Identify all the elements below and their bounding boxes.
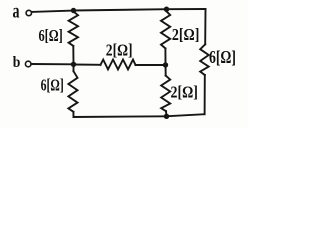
wire right side top segment: [204, 9, 206, 44]
wire bottom-left resistor to bottom wire: [72, 112, 74, 117]
wire a to node D1: [32, 11, 72, 12]
node D3 junction dot: [71, 62, 76, 67]
resistor 2 ohm middle horizontal zigzag: [101, 60, 136, 70]
svg-text:6[Ω]: 6[Ω]: [39, 26, 63, 45]
resistor 6 ohm bottom-left zigzag: [68, 71, 77, 112]
node D1 junction dot: [71, 8, 76, 13]
resistor 2 ohm bottom-right zigzag: [161, 76, 170, 112]
node D4 junction dot: [163, 62, 168, 67]
svg-text:a: a: [13, 0, 20, 22]
wire b to node D3: [31, 63, 72, 65]
node D5 junction dot: [164, 114, 169, 119]
wire middle resistor to node D4: [136, 64, 166, 66]
wire bottom-right resistor to D5: [165, 111, 168, 116]
wire D3 to middle resistor: [74, 64, 101, 66]
terminal a open circle: [26, 10, 31, 15]
svg-text:2[Ω]: 2[Ω]: [106, 40, 133, 59]
wire top-left resistor to D3: [72, 46, 74, 64]
svg-text:2[Ω]: 2[Ω]: [172, 25, 200, 44]
wire bottom right corner to node D5: [167, 114, 205, 116]
resistor 6 ohm right zigzag: [200, 44, 209, 75]
svg-text:6[Ω]: 6[Ω]: [209, 47, 236, 67]
wire top-right resistor to D4: [164, 48, 166, 65]
svg-text:2[Ω]: 2[Ω]: [171, 83, 198, 102]
wire D3 down: [73, 64, 75, 71]
wire bottom D5 to left end: [74, 115, 167, 118]
node D2 junction dot: [164, 7, 169, 12]
svg-text:6[Ω]: 6[Ω]: [41, 75, 64, 94]
resistor 6 ohm top-left zigzag: [69, 12, 78, 46]
wire D4 down: [165, 65, 167, 76]
wire D2 to top-right corner: [167, 8, 206, 10]
terminal b open circle: [25, 61, 31, 67]
wire D1 to D2 (top): [74, 9, 167, 10]
resistor 2 ohm top-right zigzag: [161, 11, 170, 48]
wire right side bottom segment: [204, 75, 206, 114]
svg-text:b: b: [13, 54, 21, 71]
